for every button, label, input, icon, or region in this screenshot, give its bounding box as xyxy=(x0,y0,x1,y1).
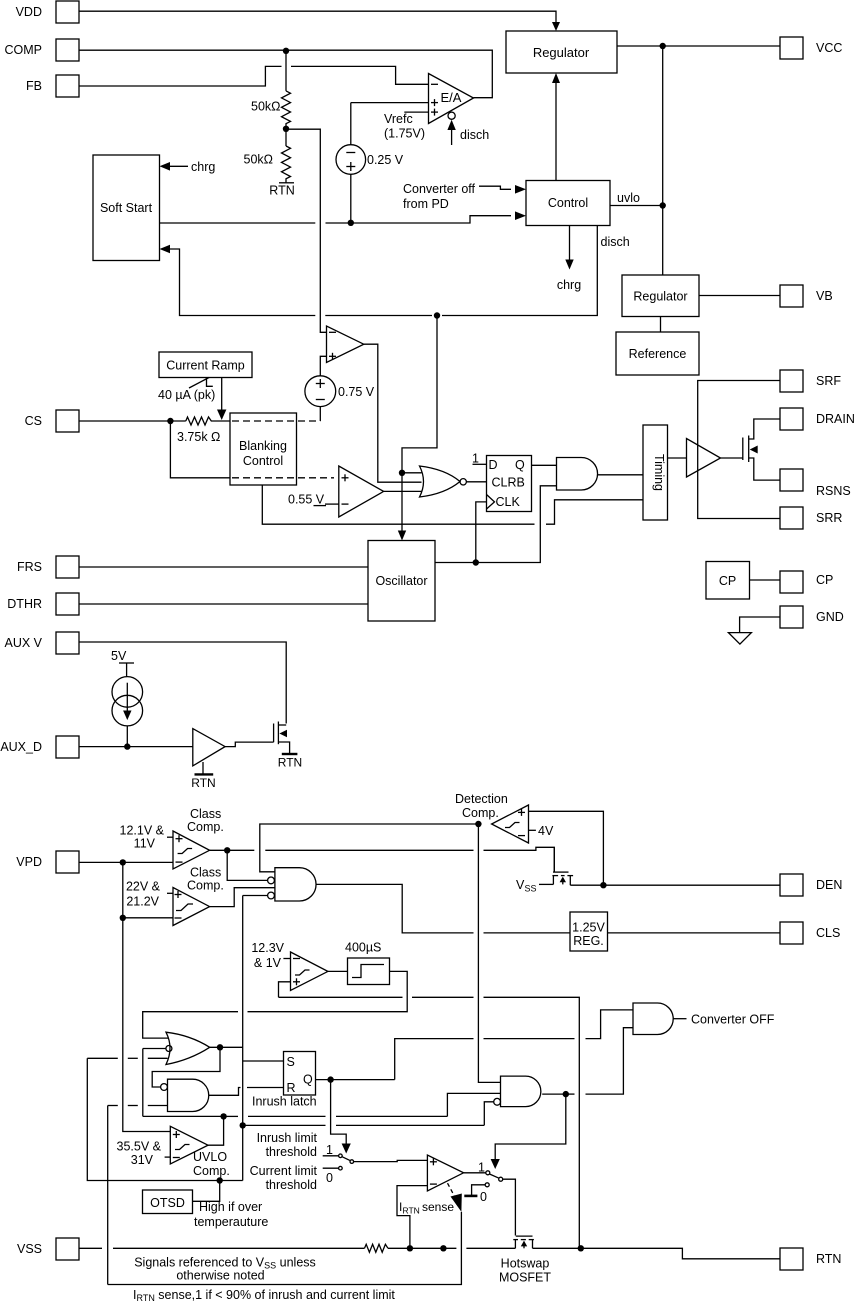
wire 0.75V source bottom to blanking dashed line xyxy=(319,407,321,421)
node COMP divider tap xyxy=(283,48,289,54)
oscillator block xyxy=(368,541,435,622)
wire CS line xyxy=(79,420,186,422)
pin RSNS xyxy=(780,469,851,498)
svg-text:1.25V: 1.25V xyxy=(572,921,605,935)
svg-text:Inrush latch: Inrush latch xyxy=(252,1095,317,1109)
wire NAND-L output to latch R xyxy=(209,1088,284,1096)
label inrush limit threshold xyxy=(257,1131,318,1159)
svg-text:Regulator: Regulator xyxy=(633,290,687,304)
svg-text:50kΩ: 50kΩ xyxy=(244,153,274,167)
regulator U2 xyxy=(622,275,699,317)
node latch Q junction xyxy=(327,1076,333,1082)
node AUX_D junction xyxy=(124,743,130,749)
note signals referenced xyxy=(134,1256,316,1283)
svg-text:22V &: 22V & xyxy=(126,880,161,894)
pin VCC xyxy=(780,37,842,59)
wire AUX_D line xyxy=(79,746,193,748)
transistor Q1 main switch xyxy=(721,419,781,480)
label IRTN sense xyxy=(399,1200,454,1216)
svg-text:400µS: 400µS xyxy=(345,941,381,955)
comparator PWM 0.75V xyxy=(327,326,364,363)
svg-text:CLRB: CLRB xyxy=(492,476,525,490)
latch inrush xyxy=(252,1052,317,1109)
gate NOR xyxy=(420,466,467,497)
pin CS xyxy=(25,410,79,432)
svg-text:21.2V: 21.2V xyxy=(126,895,159,909)
svg-text:SRF: SRF xyxy=(816,374,841,388)
gate OR set xyxy=(166,1032,210,1064)
svg-text:CLS: CLS xyxy=(816,926,840,940)
wire class2 output to NAND xyxy=(210,888,275,907)
svg-text:Control: Control xyxy=(548,196,588,210)
comparator 0.55V xyxy=(339,466,384,517)
wire VSS rail xyxy=(79,1247,365,1249)
svg-text:35.5V &: 35.5V & xyxy=(117,1140,162,1154)
svg-text:GND: GND xyxy=(816,610,844,624)
svg-text:Comp.: Comp. xyxy=(187,879,224,893)
wire latch Q output xyxy=(316,1079,395,1081)
wire NAND bubble3 input xyxy=(243,895,268,897)
svg-text:Oscillator: Oscillator xyxy=(375,574,427,588)
pin RTN xyxy=(780,1248,841,1270)
svg-text:VCC: VCC xyxy=(816,41,842,55)
node rail junction xyxy=(440,1245,446,1251)
wire Regulator2 to VB xyxy=(699,295,780,297)
svg-text:Timing: Timing xyxy=(652,454,666,491)
wire 0.75V source to comparator plus xyxy=(320,356,326,376)
wire class2 minus input xyxy=(123,917,173,919)
voltage source 0.25V xyxy=(336,145,404,175)
label 12.3V 1V xyxy=(251,941,290,970)
wire class1 output to NAND bubble xyxy=(227,850,267,880)
transistor Q4 DEN switch xyxy=(552,847,573,885)
current ramp block xyxy=(159,352,252,378)
wire IRTN sense annotation arrow xyxy=(108,1183,462,1284)
pin DTHR xyxy=(7,593,79,615)
wire disch branch to NOR and oscillator xyxy=(398,316,437,541)
label Vrefc xyxy=(384,112,429,141)
wire oneshot output to OR xyxy=(143,971,408,1038)
label 12.1V 11V xyxy=(120,824,173,851)
svg-text:50kΩ: 50kΩ xyxy=(251,100,281,114)
node oscillator clk junction xyxy=(473,559,479,565)
wire CS sense to comparator xyxy=(170,421,230,478)
label VSS at DEN switch xyxy=(516,878,553,894)
pin AUX_D xyxy=(0,736,79,758)
pin SRR xyxy=(780,507,842,529)
gate NAND class xyxy=(268,868,316,901)
svg-text:chrg: chrg xyxy=(191,160,215,174)
control block xyxy=(526,181,610,226)
wire uvlo xyxy=(610,191,663,206)
svg-text:0: 0 xyxy=(326,1171,333,1185)
resistor R1 50k xyxy=(251,51,291,129)
svg-text:High if over: High if over xyxy=(199,1200,262,1214)
svg-text:sense: sense xyxy=(422,1200,454,1214)
svg-text:AUX_D: AUX_D xyxy=(0,740,42,754)
svg-text:Current Ramp: Current Ramp xyxy=(166,359,245,373)
wire soft start output to Control xyxy=(160,211,527,223)
node classification rail junction xyxy=(578,1245,584,1251)
svg-text:OTSD: OTSD xyxy=(150,1196,185,1210)
wire detection output down xyxy=(478,824,500,1082)
wire flipflop Q to AND xyxy=(532,464,557,466)
voltage source 0.75V xyxy=(305,376,375,407)
svg-text:uvlo: uvlo xyxy=(617,191,640,205)
svg-text:Comp.: Comp. xyxy=(187,820,224,834)
gate NAND latch reset xyxy=(161,1079,209,1111)
svg-text:Current limit: Current limit xyxy=(250,1164,318,1178)
wire NAND2 output to switch select arrow xyxy=(491,1094,566,1169)
comparator IRTN sense xyxy=(427,1155,463,1191)
node disch oscillator branch xyxy=(434,312,440,318)
svg-text:SS: SS xyxy=(525,884,537,894)
svg-text:Reference: Reference xyxy=(629,347,687,361)
flip-flop U3 xyxy=(472,452,532,512)
gate AND converter-off xyxy=(633,1003,775,1035)
wire chrg output down xyxy=(557,226,581,293)
svg-text:12.3V: 12.3V xyxy=(251,941,284,955)
node DEN junction xyxy=(600,882,606,888)
wire latch Q to converter-off AND xyxy=(395,1010,633,1080)
op-amp E/A xyxy=(429,74,474,124)
svg-text:Control: Control xyxy=(243,454,283,468)
switch hotswap gate select xyxy=(464,1161,502,1205)
wire classification sense line xyxy=(279,997,580,1248)
wire disch output xyxy=(160,226,630,316)
buffer aux driver xyxy=(193,729,225,766)
svg-text:UVLO: UVLO xyxy=(193,1150,227,1164)
svg-text:Comp.: Comp. xyxy=(193,1164,230,1178)
wire DEN line xyxy=(570,884,780,886)
node class1 output xyxy=(224,847,230,853)
wire Regulator to VCC xyxy=(617,45,780,47)
svg-text:REG.: REG. xyxy=(573,934,604,948)
comparator class1 xyxy=(173,831,210,869)
svg-text:1: 1 xyxy=(478,1161,485,1175)
pin CLS xyxy=(780,922,840,944)
pin COMP xyxy=(5,39,80,61)
wire UVLO output xyxy=(208,1116,224,1145)
svg-text:VSS: VSS xyxy=(17,1242,42,1256)
current source I1 xyxy=(112,677,143,747)
wire NAND2 output to converter-off AND xyxy=(542,1028,633,1094)
node NAND2 output xyxy=(563,1091,569,1097)
svg-text:threshold: threshold xyxy=(266,1178,317,1192)
svg-text:(1.75V): (1.75V) xyxy=(384,127,425,141)
svg-text:disch: disch xyxy=(460,128,489,142)
resistor R4 sense xyxy=(365,1244,389,1252)
svg-text:VPD: VPD xyxy=(16,855,42,869)
pin CP xyxy=(780,571,833,593)
svg-text:IRTN sense,1 if < 90% of inrus: IRTN sense,1 if < 90% of inrush and curr… xyxy=(133,1288,395,1303)
svg-text:Blanking: Blanking xyxy=(239,439,287,453)
soft start block xyxy=(93,155,160,261)
pin DRAIN xyxy=(780,408,854,430)
wire FRS xyxy=(79,566,368,568)
wire CLK from oscillator xyxy=(476,502,487,563)
wire class1 output long line to DEN gate xyxy=(210,847,555,871)
svg-text:Vrefc: Vrefc xyxy=(384,112,413,126)
svg-text:CP: CP xyxy=(816,573,833,587)
node VPD junction1 xyxy=(120,859,126,865)
wire AND output to Timing xyxy=(598,474,644,476)
pin FRS xyxy=(17,556,79,578)
svg-text:40 µA (pk): 40 µA (pk) xyxy=(158,388,215,402)
label detection comp xyxy=(455,792,508,820)
ground RTN under divider xyxy=(269,183,294,198)
wire 0.55V comparator output xyxy=(384,490,422,492)
transistor Q5 hotswap xyxy=(513,1236,534,1248)
svg-text:SRR: SRR xyxy=(816,511,842,525)
wire NAND2 mid input from UVLO line xyxy=(447,1093,500,1116)
svg-text:Q: Q xyxy=(515,458,525,472)
node NOR input junction xyxy=(399,470,405,476)
svg-text:RTN: RTN xyxy=(269,184,294,198)
svg-text:DRAIN: DRAIN xyxy=(816,412,854,426)
label UVLO comp xyxy=(193,1150,230,1178)
wire rail to hotswap xyxy=(388,1247,515,1249)
wire SRF to SRR xyxy=(698,381,780,519)
comparator detection xyxy=(492,805,529,843)
wire AUX V to aux mosfet xyxy=(79,642,286,724)
svg-text:RTN: RTN xyxy=(816,1252,841,1266)
svg-text:chrg: chrg xyxy=(557,278,581,292)
wire divider tap to PWM comparator xyxy=(286,129,327,332)
node CS junction xyxy=(167,418,173,424)
timing block xyxy=(643,425,668,520)
svg-text:AUX V: AUX V xyxy=(4,636,42,650)
svg-text:0.55 V: 0.55 V xyxy=(288,493,325,507)
svg-text:CP: CP xyxy=(719,574,736,588)
label current limit threshold xyxy=(250,1164,318,1192)
node detection comp output xyxy=(475,821,481,827)
svg-text:FB: FB xyxy=(26,79,42,93)
regulator U1 xyxy=(506,31,617,73)
node VPD junction2 xyxy=(120,915,126,921)
svg-text:0.75 V: 0.75 V xyxy=(338,385,375,399)
svg-text:disch: disch xyxy=(601,235,630,249)
svg-text:Q: Q xyxy=(303,1073,313,1087)
label converter off from PD xyxy=(403,182,526,211)
wire DTHR xyxy=(79,603,368,605)
label class comp 2 xyxy=(187,866,224,893)
CP block xyxy=(706,562,780,600)
comparator class2 xyxy=(173,888,210,926)
pin VDD xyxy=(16,1,79,23)
pin FB xyxy=(26,75,79,97)
wire NAND-L bottom input from IRTN line xyxy=(108,1106,168,1285)
label hotswap MOSFET xyxy=(499,1257,551,1285)
label 22V 21.2V xyxy=(126,880,173,909)
svg-text:from PD: from PD xyxy=(403,197,449,211)
comparator class timer xyxy=(291,952,328,991)
node divider midpoint xyxy=(283,126,289,132)
disch bubble and arrow at E/A xyxy=(447,112,489,145)
svg-text:COMP: COMP xyxy=(5,43,43,57)
pin GND xyxy=(780,606,844,628)
svg-text:R: R xyxy=(287,1081,296,1095)
svg-text:Regulator: Regulator xyxy=(533,45,590,60)
wire detection comp output feedback xyxy=(260,824,479,872)
svg-text:MOSFET: MOSFET xyxy=(499,1271,551,1285)
svg-text:31V: 31V xyxy=(131,1153,154,1167)
resistor R2 50k xyxy=(244,129,291,183)
svg-text:1: 1 xyxy=(472,452,479,466)
svg-text:& 1V: & 1V xyxy=(254,956,282,970)
svg-text:temperauture: temperauture xyxy=(194,1215,268,1229)
wire RTN side rail xyxy=(533,1248,781,1259)
svg-text:RTN: RTN xyxy=(403,1206,420,1216)
OTSD block xyxy=(143,1190,193,1214)
node UVLO output junction xyxy=(220,1113,226,1119)
svg-text:Comp.: Comp. xyxy=(462,806,499,820)
wire comparator plus tap xyxy=(279,982,291,998)
svg-text:Hotswap: Hotswap xyxy=(501,1257,550,1271)
pin VB xyxy=(780,285,833,307)
wire OR feedback to NAND-L bubble xyxy=(152,1047,220,1087)
svg-text:D: D xyxy=(489,458,498,472)
wire OR input3 from OTSD line xyxy=(87,1058,167,1180)
pin SRF xyxy=(780,370,841,392)
wire NOR to flipflop CLRB xyxy=(466,481,486,483)
label 0.55V xyxy=(288,493,339,507)
svg-text:5V: 5V xyxy=(111,649,127,663)
ground GND symbol xyxy=(728,617,780,644)
label 5V rail xyxy=(111,649,134,677)
svg-text:RTN: RTN xyxy=(278,756,302,770)
wire 0.25V to E/A plus xyxy=(351,103,429,145)
wire CLS line xyxy=(608,932,781,934)
wire IRTN comparator output to switch xyxy=(464,1172,486,1174)
svg-text:Soft Start: Soft Start xyxy=(100,201,153,215)
node IRTN minus tap xyxy=(407,1245,413,1251)
wire OR output to latch S xyxy=(210,1047,284,1061)
svg-text:RSNS: RSNS xyxy=(816,484,851,498)
switch threshold select xyxy=(323,1143,354,1185)
blanking control block xyxy=(230,413,334,485)
pin DEN xyxy=(780,874,842,896)
wire OR bubble input from UVLO net xyxy=(143,1049,166,1117)
wire COMP line xyxy=(79,50,492,97)
svg-text:Inrush limit: Inrush limit xyxy=(257,1131,318,1145)
wire switch common to hotswap gate xyxy=(503,1179,516,1235)
svg-text:RTN: RTN xyxy=(191,776,215,790)
svg-text:Converter off: Converter off xyxy=(403,182,476,196)
wire detection plus to DEN xyxy=(529,811,604,885)
svg-text:CLK: CLK xyxy=(496,495,521,509)
wire inrush select to NAND2 bubble xyxy=(243,1124,485,1126)
svg-text:1: 1 xyxy=(326,1143,333,1157)
svg-text:otherwise noted: otherwise noted xyxy=(176,1269,264,1283)
node uvlo junction xyxy=(660,202,666,208)
label high if over temperature xyxy=(194,1200,268,1229)
wire FB to E/A xyxy=(79,66,429,86)
pin AUX V xyxy=(4,632,79,654)
wire NAND2 bubble input xyxy=(484,1102,493,1125)
reference block xyxy=(616,317,699,376)
svg-text:Class: Class xyxy=(190,866,221,880)
node VCC junction xyxy=(660,43,666,49)
svg-text:E/A: E/A xyxy=(441,90,462,105)
svg-text:0.25 V: 0.25 V xyxy=(367,153,404,167)
svg-text:FRS: FRS xyxy=(17,560,42,574)
gate AND pwm xyxy=(557,458,598,491)
driver buffer xyxy=(668,439,721,478)
wire current ramp arrow xyxy=(217,378,226,421)
svg-text:4V: 4V xyxy=(538,824,554,838)
node OTSD junction xyxy=(217,1177,223,1183)
label 40uA pk xyxy=(158,378,215,403)
note IRTN sense footnote xyxy=(133,1288,395,1303)
pin VPD xyxy=(16,851,79,873)
wire oscillator output to AND xyxy=(435,486,557,563)
wire VDD to Regulator xyxy=(79,11,560,31)
svg-text:VDD: VDD xyxy=(16,5,42,19)
svg-text:CS: CS xyxy=(25,414,42,428)
svg-text:Detection: Detection xyxy=(455,792,508,806)
wire blanking output to timing xyxy=(262,485,643,524)
gate NAND2 hotswap control xyxy=(494,1076,541,1107)
svg-text:DTHR: DTHR xyxy=(7,597,42,611)
wire chrg into soft start xyxy=(160,160,216,174)
svg-text:Class: Class xyxy=(190,807,221,821)
label class comp 1 xyxy=(187,807,224,834)
wire class NAND output to CLS regulator xyxy=(316,884,570,933)
wire VPD line xyxy=(79,861,173,863)
wire NOR input1 xyxy=(402,472,422,474)
svg-text:11V: 11V xyxy=(134,837,156,851)
comparator UVLO xyxy=(170,1126,208,1164)
svg-text:12.1V &: 12.1V & xyxy=(120,824,165,838)
wire VPD bus down to UVLO xyxy=(123,862,171,1131)
regulator 1.25V block xyxy=(570,912,608,951)
svg-text:Converter OFF: Converter OFF xyxy=(691,1013,775,1027)
label 35.5V 31V xyxy=(117,1140,171,1168)
svg-text:0: 0 xyxy=(480,1190,487,1204)
wire PWM comparator output to NOR xyxy=(364,344,422,482)
svg-text:3.75k Ω: 3.75k Ω xyxy=(177,430,220,444)
label 4V xyxy=(529,824,554,838)
wire switch common to IRTN comparator xyxy=(354,1160,428,1161)
node OR output xyxy=(217,1044,223,1050)
ground RTN at aux mosfet xyxy=(278,754,302,770)
node inrush select junction xyxy=(240,1122,246,1128)
svg-text:S: S xyxy=(287,1055,295,1069)
svg-text:DEN: DEN xyxy=(816,878,842,892)
wire 0.25V source to soft-start line xyxy=(350,174,352,223)
ground RTN under aux buffer xyxy=(191,762,215,790)
resistor R3 3.75k xyxy=(177,417,230,444)
node soft-start 0.25V junction xyxy=(348,220,354,226)
wire UVLO output line xyxy=(143,1115,448,1117)
svg-text:VB: VB xyxy=(816,289,833,303)
oneshot 400us block xyxy=(328,941,390,985)
wire IRTN comparator minus to VSS sense xyxy=(397,1186,427,1249)
wire OTSD output xyxy=(108,1181,243,1202)
wire VCC rail down xyxy=(662,46,664,275)
wire Q to threshold switch xyxy=(331,1080,351,1154)
svg-text:threshold: threshold xyxy=(266,1145,317,1159)
wire Control to Regulator xyxy=(552,73,560,181)
transistor Q3 aux switch xyxy=(225,722,290,755)
pin VSS xyxy=(17,1238,79,1260)
bus inrush select vertical xyxy=(242,896,244,1181)
